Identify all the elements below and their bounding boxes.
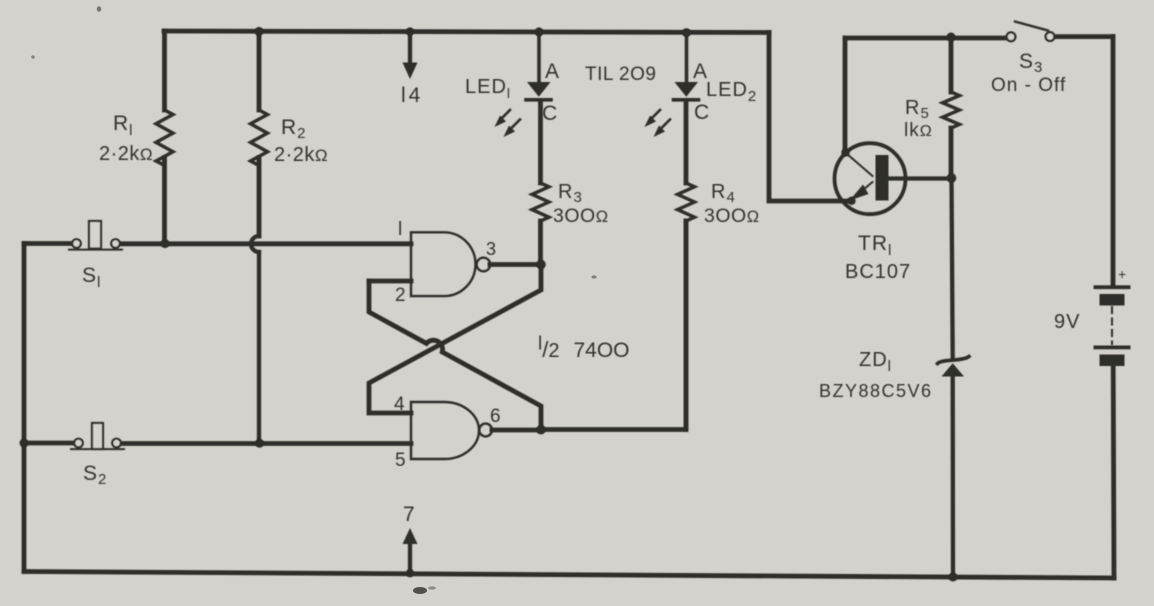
wire S2 row left xyxy=(24,441,74,446)
node output3 junction xyxy=(536,260,546,270)
svg-text:A: A xyxy=(545,60,560,83)
node collector blob xyxy=(841,148,849,156)
pin 14 supply arrow xyxy=(403,32,418,80)
svg-text:C: C xyxy=(694,101,710,124)
node R2 top xyxy=(255,27,264,36)
wire S1 row right to gate pin 1 xyxy=(120,241,411,246)
zener ZD1 xyxy=(938,357,970,578)
node R5 top xyxy=(947,33,956,42)
svg-text:LEDl: LEDl xyxy=(465,76,511,101)
wire R2 hop over S1 row xyxy=(251,236,259,252)
switch S2 pushbutton xyxy=(71,423,124,449)
svg-text:On - Off: On - Off xyxy=(991,75,1066,96)
wire right vertical battery top xyxy=(1111,37,1116,285)
node left vertical / S2 row xyxy=(20,439,29,448)
nand gate G2 (1/2 7400) outline with bubble xyxy=(411,402,492,459)
resistor R3 xyxy=(538,102,543,265)
node LED2 top xyxy=(682,28,691,37)
switch S3 On-Off xyxy=(1007,22,1055,42)
wire emitter feed from top rail xyxy=(769,33,851,202)
svg-text:3OOΩ: 3OOΩ xyxy=(704,205,760,227)
svg-text:6: 6 xyxy=(490,406,502,427)
svg-text:5: 5 xyxy=(395,450,407,471)
svg-text:TIL 2O9: TIL 2O9 xyxy=(585,64,656,85)
svg-text:2: 2 xyxy=(395,285,407,306)
svg-text:3OOΩ: 3OOΩ xyxy=(553,205,609,227)
switch S1 pushbutton xyxy=(69,221,122,250)
svg-text:7: 7 xyxy=(403,503,416,526)
wire top rail (5V) from R1 top to emitter-drop corner xyxy=(164,31,769,33)
wire R2 lower xyxy=(257,252,261,443)
LED2 emission arrows xyxy=(645,110,671,137)
LED LED1 xyxy=(526,32,551,100)
svg-text:l: l xyxy=(398,219,403,240)
node emitter blob xyxy=(847,197,855,205)
LED1 emission arrows xyxy=(495,110,521,137)
resistor R1 xyxy=(162,31,167,244)
svg-text:C: C xyxy=(542,102,558,125)
wire output 3 xyxy=(490,262,541,267)
resistor R5 xyxy=(949,37,954,178)
scan smudge below bottom rail xyxy=(31,6,596,594)
resistor R2 xyxy=(257,31,262,236)
svg-text:4: 4 xyxy=(394,394,406,415)
svg-text:TRl: TRl xyxy=(858,232,892,259)
node pin14 top xyxy=(406,27,414,35)
svg-text:2·2kΩ: 2·2kΩ xyxy=(274,144,328,166)
svg-text:3: 3 xyxy=(486,239,497,259)
wire S1 row left xyxy=(24,241,72,246)
node base / R5 / zener xyxy=(947,173,957,183)
svg-text:+: + xyxy=(1118,266,1127,282)
node R1 / S1 row xyxy=(161,239,170,248)
svg-text:BC107: BC107 xyxy=(845,261,911,283)
LED LED2 xyxy=(674,33,699,100)
svg-text:2·2kΩ: 2·2kΩ xyxy=(99,143,153,165)
wire R5 to zener xyxy=(952,178,953,357)
wire rail2 (battery rail) xyxy=(845,37,1113,39)
wire feedback diagonal B (gate2 out to gate1 pin2) with hop xyxy=(369,281,541,430)
svg-text:l4: l4 xyxy=(401,84,423,107)
node R2 / S2 row xyxy=(255,439,264,448)
wire left vertical xyxy=(22,244,27,572)
nand gate G1 (1/2 7400) outline with bubble xyxy=(411,232,490,296)
svg-text:BZY88C5V6: BZY88C5V6 xyxy=(819,381,933,401)
wire output 6 xyxy=(492,428,541,433)
node output6 junction xyxy=(536,425,546,435)
pin 7 ground arrow xyxy=(403,528,418,573)
wire collector drop xyxy=(843,38,848,153)
wire right vertical battery bottom xyxy=(1111,366,1117,578)
battery 9V xyxy=(1094,285,1131,366)
node LED1 top xyxy=(535,27,544,36)
svg-text:9V: 9V xyxy=(1054,311,1080,333)
node zener bottom rail xyxy=(949,573,958,582)
wire S2 row right to gate pin 5 xyxy=(120,441,411,446)
wire feedback diagonal A (gate1 out to gate2 pin4) xyxy=(369,265,541,414)
wire output6 row to R4 corner xyxy=(541,221,686,430)
resistor R4 xyxy=(684,102,689,430)
node pin7 bottom xyxy=(406,569,414,577)
wire bottom rail (0V) xyxy=(24,572,1114,579)
svg-text:lkΩ: lkΩ xyxy=(904,120,933,141)
transistor TR1 xyxy=(835,143,952,214)
wire gate1 pin2 stub xyxy=(369,279,411,284)
